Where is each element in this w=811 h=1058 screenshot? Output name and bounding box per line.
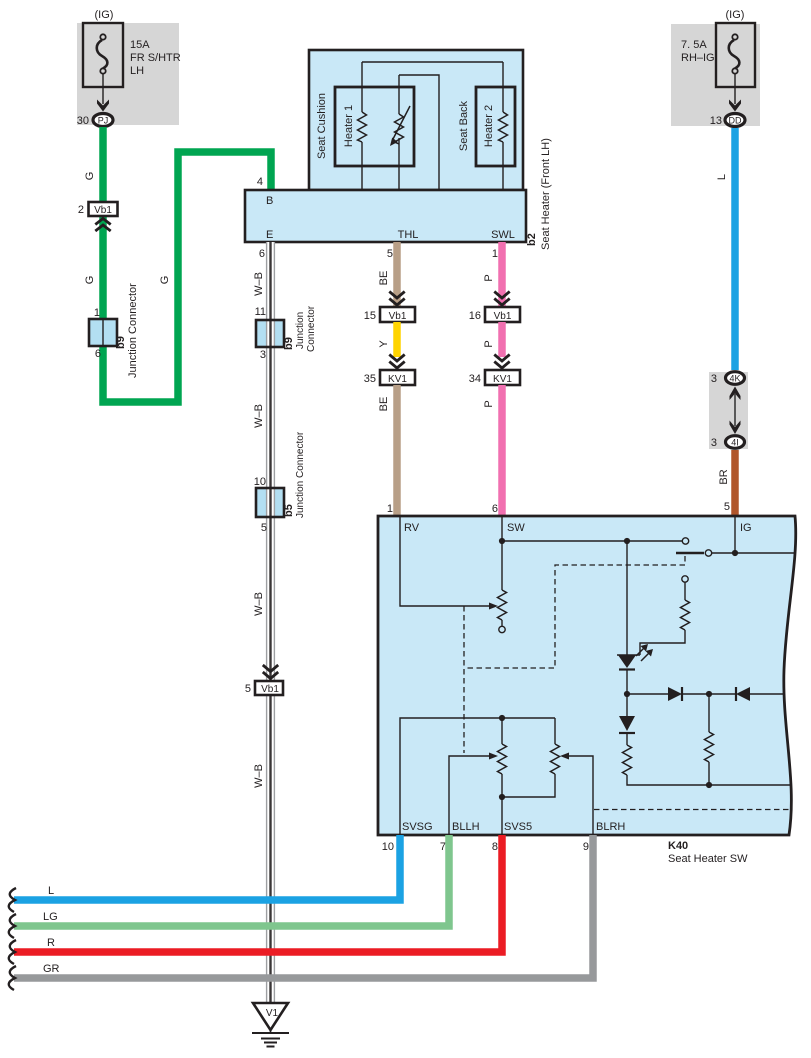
heater 2 box	[476, 87, 515, 166]
wire BE to K40 RV pin 1	[393, 385, 401, 516]
fuse block background (gray)	[671, 24, 760, 126]
label W-B	[253, 272, 265, 296]
wire thermistor rail to strip	[399, 75, 439, 190]
svg-text:SVSG: SVSG	[402, 821, 433, 833]
svg-text:SVS5: SVS5	[504, 821, 532, 833]
resistor heater 2	[499, 62, 508, 190]
svg-text:Heater 1: Heater 1	[343, 105, 355, 147]
svg-text:SWL: SWL	[491, 229, 515, 241]
svg-text:11: 11	[255, 306, 266, 318]
svg-text:P: P	[483, 400, 495, 407]
svg-text:B: B	[266, 195, 273, 207]
connector KV1 pin 35	[364, 355, 415, 386]
wire P pink	[498, 322, 506, 357]
junction connector b9 pins 1/6	[89, 283, 139, 378]
switch blade and IG contact	[676, 516, 794, 556]
svg-text:THL: THL	[398, 229, 419, 241]
svg-text:P: P	[483, 274, 495, 281]
seat heater unit box	[309, 50, 523, 190]
svg-text:8: 8	[492, 841, 498, 853]
LED indicator	[617, 541, 653, 694]
dashed line bottom	[594, 809, 790, 811]
svg-text:15A: 15A	[130, 39, 150, 51]
connector PJ pin 30	[77, 114, 113, 128]
resistor upper-right (with open contact)	[640, 576, 690, 655]
label BE	[378, 271, 390, 286]
svg-text:R: R	[47, 937, 55, 949]
svg-text:P: P	[483, 340, 495, 347]
svg-text:b2: b2	[526, 233, 538, 246]
label BR	[718, 469, 730, 484]
connector 4K/4I block	[709, 372, 748, 449]
svg-text:Seat Back: Seat Back	[458, 100, 470, 151]
wire SW top rail to switch contact	[502, 538, 689, 544]
K40 box	[378, 516, 796, 835]
label Y	[378, 340, 390, 348]
svg-text:Seat Heater SW: Seat Heater SW	[668, 853, 748, 865]
svg-text:6: 6	[95, 348, 101, 360]
dashed mechanical link pot to switch	[464, 556, 685, 753]
svg-text:RV: RV	[404, 522, 420, 534]
svg-text:4: 4	[257, 176, 263, 188]
connector 4K pin 3	[711, 372, 745, 385]
fuse F1 15A FR S/HTR LH	[83, 23, 181, 87]
thermistor (variable resistor)	[390, 75, 410, 190]
wire BE from THL pin 5	[393, 242, 401, 307]
svg-text:Y: Y	[378, 340, 390, 348]
label P	[483, 400, 495, 407]
wire L blue from SVSG pin 10	[14, 835, 400, 900]
svg-text:BLRH: BLRH	[596, 821, 625, 833]
wire LG from BLLH pin 7	[14, 835, 449, 926]
label G	[84, 276, 96, 285]
connector DD pin 13	[710, 114, 745, 128]
svg-text:LG: LG	[43, 911, 58, 923]
svg-text:b5: b5	[283, 504, 295, 517]
svg-text:KV1: KV1	[388, 374, 407, 385]
svg-text:L: L	[716, 174, 728, 180]
wire P pink to K40 SW pin 6	[498, 385, 506, 516]
junction connector b9 (second) pins 11/3	[255, 305, 317, 361]
pin labels strip	[266, 195, 515, 241]
label W-B	[253, 592, 265, 616]
pin labels top	[404, 522, 752, 534]
svg-text:5: 5	[245, 683, 251, 695]
svg-text:Vb1: Vb1	[389, 311, 407, 322]
svg-text:G: G	[84, 276, 96, 285]
wire top rail heater1 to heater2	[362, 61, 503, 63]
wire W-B from pin E to ground V1	[267, 242, 275, 1003]
svg-text:b9: b9	[115, 336, 127, 349]
svg-text:K40: K40	[668, 840, 688, 852]
label (IG) left	[95, 9, 114, 21]
label 4 at pin B	[257, 176, 263, 188]
junction connector b5 pins 10/5	[254, 431, 306, 534]
wire BLLH riser to P2 wiper	[449, 753, 498, 836]
wire R red from SVS5 pin 8	[14, 835, 502, 952]
svg-text:G: G	[84, 172, 96, 181]
pin numbers K40 bottom	[382, 841, 589, 853]
connector KV1 pin 34	[469, 355, 520, 386]
svg-text:W–B: W–B	[253, 404, 265, 428]
wire SVSG riser and top rail	[400, 715, 555, 835]
svg-text:V1: V1	[266, 1008, 279, 1019]
label b2 Seat Heater (Front LH)	[526, 138, 552, 250]
svg-text:5: 5	[724, 501, 730, 513]
label (IG) right	[726, 9, 745, 21]
svg-text:Seat Cushion: Seat Cushion	[316, 93, 328, 159]
svg-text:5: 5	[261, 522, 267, 534]
svg-text:7: 7	[440, 841, 446, 853]
label Seat Back	[458, 100, 470, 151]
connector strip b2	[245, 190, 526, 242]
ground V1	[252, 1003, 289, 1047]
svg-text:E: E	[266, 229, 273, 241]
svg-text:34: 34	[469, 373, 481, 385]
svg-text:G: G	[159, 276, 171, 285]
label P	[483, 340, 495, 347]
svg-text:15: 15	[364, 310, 376, 322]
svg-text:Junction: Junction	[295, 312, 306, 349]
label G	[84, 172, 96, 181]
wire SVS5 riser	[501, 797, 503, 835]
label W-B	[253, 404, 265, 428]
svg-text:W–B: W–B	[253, 764, 265, 788]
potentiometer P2 (lower-left)	[498, 718, 507, 800]
svg-text:4K: 4K	[729, 374, 740, 384]
svg-text:FR S/HTR: FR S/HTR	[130, 52, 181, 64]
svg-text:10: 10	[254, 476, 266, 488]
svg-text:SW: SW	[507, 522, 525, 534]
label P	[483, 274, 495, 281]
label L	[716, 174, 728, 180]
connector Vb1 pin 16	[469, 292, 520, 323]
svg-text:GR: GR	[43, 963, 60, 975]
svg-text:DD: DD	[729, 116, 742, 126]
svg-text:BR: BR	[718, 469, 730, 484]
svg-text:Junction Connector: Junction Connector	[127, 283, 139, 378]
connector Vb1 pin 5 (middle)	[245, 665, 283, 695]
svg-text:W–B: W–B	[253, 272, 265, 296]
svg-text:9: 9	[583, 841, 589, 853]
svg-text:Heater 2: Heater 2	[483, 105, 495, 147]
resistor right vertical	[705, 694, 792, 788]
resistor heater 1	[358, 62, 367, 190]
label W-B	[253, 764, 265, 788]
svg-text:6: 6	[259, 248, 265, 260]
diode D3 down + resistor chain	[619, 694, 709, 785]
wire fuse to connector DD with arrow	[729, 74, 741, 112]
wire Y yellow	[393, 322, 401, 357]
wire L blue from DD to 4K	[731, 128, 739, 370]
label K40 Seat Heater SW	[668, 840, 748, 865]
wire BLRH riser to P3 wiper	[560, 753, 593, 836]
svg-text:10: 10	[382, 841, 394, 853]
svg-text:7. 5A: 7. 5A	[681, 39, 707, 51]
svg-text:LH: LH	[130, 65, 144, 77]
connector Vb1 pin 15	[364, 292, 415, 323]
label G (right green leg)	[159, 276, 171, 285]
wire labels	[43, 885, 60, 975]
svg-text:BLLH: BLLH	[452, 821, 480, 833]
svg-text:1: 1	[387, 503, 393, 515]
svg-text:6: 6	[492, 503, 498, 515]
svg-text:Junction Connector: Junction Connector	[295, 431, 306, 518]
heater 1 box	[335, 87, 414, 166]
svg-text:2: 2	[78, 204, 84, 216]
wire BR brown to K40 IG pin 5	[731, 450, 739, 516]
wire P pink from SWL pin 1	[498, 242, 506, 307]
diode D2 left-pointing	[706, 687, 785, 701]
svg-text:Connector: Connector	[306, 305, 317, 352]
svg-text:35: 35	[364, 373, 376, 385]
svg-text:RH–IG: RH–IG	[681, 52, 715, 64]
svg-text:13: 13	[710, 115, 722, 127]
svg-text:(IG): (IG)	[95, 9, 114, 21]
arrow link 4K to 4I	[730, 387, 741, 435]
connector Vb1 pin 2	[78, 202, 118, 231]
label Seat Cushion	[316, 93, 328, 159]
svg-text:BE: BE	[378, 397, 390, 412]
diode row: diode D1 right-pointing	[624, 687, 709, 701]
svg-text:KV1: KV1	[493, 374, 512, 385]
wire RV riser to potentiometer wiper	[400, 516, 498, 610]
pin labels bottom	[402, 821, 625, 833]
fuse block background (gray)	[77, 23, 179, 125]
wire green G from PJ down, U-turn, to pin 4 B of seat heater	[103, 127, 271, 402]
svg-text:3: 3	[711, 373, 717, 385]
svg-text:Vb1: Vb1	[494, 311, 512, 322]
connector 4I pin 3	[711, 436, 745, 449]
label BE	[378, 397, 390, 412]
potentiometer P3 (lower-right)	[502, 718, 560, 797]
svg-text:1: 1	[94, 307, 100, 319]
svg-text:30: 30	[77, 115, 89, 127]
pin 6 label	[259, 248, 265, 260]
svg-text:IG: IG	[740, 522, 752, 534]
fuse F2 7.5A RH-IG	[681, 23, 755, 87]
svg-text:3: 3	[711, 437, 717, 449]
svg-text:3: 3	[260, 349, 266, 361]
svg-text:5: 5	[387, 248, 393, 260]
svg-text:L: L	[48, 885, 54, 897]
svg-text:PJ: PJ	[98, 116, 109, 126]
svg-text:4I: 4I	[731, 438, 739, 448]
svg-text:(IG): (IG)	[726, 9, 745, 21]
svg-text:16: 16	[469, 310, 481, 322]
svg-text:Vb1: Vb1	[261, 684, 279, 695]
svg-text:Seat Heater (Front LH): Seat Heater (Front LH)	[540, 138, 552, 250]
wire fuse to connector PJ with arrow	[97, 74, 109, 112]
svg-text:W–B: W–B	[253, 592, 265, 616]
svg-text:BE: BE	[378, 271, 390, 286]
svg-text:b9: b9	[283, 337, 295, 350]
svg-text:Vb1: Vb1	[94, 205, 112, 216]
wire GR gray from BLRH pin 9	[14, 835, 593, 978]
svg-text:1: 1	[492, 248, 498, 260]
continuation squiggles	[9, 888, 16, 990]
potentiometer P1 (upper)	[498, 516, 507, 633]
